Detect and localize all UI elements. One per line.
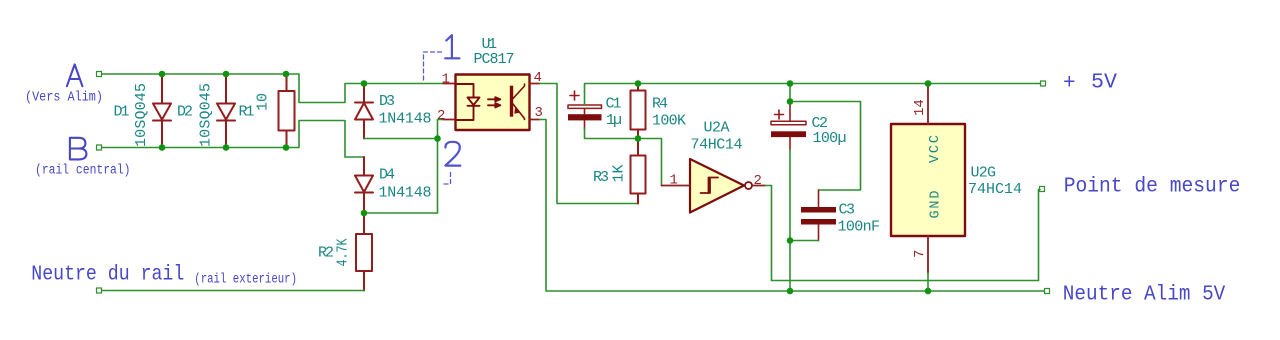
wire C3 bottom link (790, 240, 819, 242)
svg-text:100K: 100K (652, 113, 686, 130)
svg-text:D4: D4 (379, 167, 395, 184)
capacitor C3 (801, 190, 836, 241)
svg-text:1N4148: 1N4148 (379, 185, 432, 202)
diode D4 (355, 157, 373, 213)
junction D3 top (361, 80, 368, 87)
U1 pin 2 (444, 119, 456, 121)
svg-text:C1: C1 (606, 96, 622, 113)
wire pin2 stub (438, 119, 444, 121)
svg-text:1K: 1K (611, 165, 628, 183)
svg-text:(Vers Alim): (Vers Alim) (25, 91, 103, 106)
svg-text:R1: R1 (239, 104, 255, 121)
junction R4 top (635, 80, 642, 87)
wire pin2 vertical down to D4 node (364, 120, 438, 214)
U2A pin 1 (662, 185, 691, 187)
svg-text:14: 14 (912, 99, 928, 116)
junction A-D1 (159, 71, 166, 78)
U2A output bubble (745, 182, 752, 189)
U1 light arrows (488, 97, 500, 107)
junction pin2 node (434, 135, 441, 142)
hierarchical label 1 dashed leader (424, 52, 443, 80)
svg-text:4.7K: 4.7K (335, 239, 352, 267)
svg-text:U2A: U2A (704, 120, 730, 137)
U2G pin 14 (927, 85, 929, 124)
hierarchical label 1 (445, 35, 459, 58)
junction A-D2 (223, 71, 230, 78)
U2A hysteresis symbol (701, 178, 719, 194)
Point de mesure pad (1040, 187, 1045, 192)
resistor R3 (631, 139, 646, 204)
wire A rail (102, 73, 286, 75)
inverter U2A body (690, 159, 744, 213)
junction RC node (635, 135, 642, 142)
resistor R2 (356, 213, 372, 291)
junction U2G pin14 (925, 80, 932, 87)
diode D1 (153, 74, 171, 148)
node A text label (67, 64, 83, 86)
wire D3 anode to pin2 node (364, 138, 438, 140)
svg-text:1: 1 (670, 173, 678, 189)
svg-text:U2G: U2G (971, 164, 997, 181)
junction C2 ground (787, 288, 794, 295)
wire C1 top to +5V rail (585, 84, 1041, 106)
svg-text:PC817: PC817 (474, 51, 515, 68)
diode D2 (217, 74, 235, 148)
wire C2 top branch (790, 84, 861, 191)
wire B jog to D4 (286, 121, 364, 158)
junction B-D1 (159, 144, 166, 151)
svg-text:R4: R4 (652, 96, 668, 113)
U1 pin 3 (530, 119, 540, 121)
node B text label (70, 138, 87, 160)
svg-text:R3: R3 (593, 169, 609, 186)
hierarchical label 2 dashed leader (443, 173, 451, 185)
resistor R1 (279, 74, 295, 148)
svg-text:D2: D2 (177, 104, 193, 121)
power unit U2G body (891, 124, 965, 236)
U1 pin 4 (530, 83, 540, 85)
U1 pin 1 (444, 83, 456, 85)
diode D3 (355, 84, 373, 139)
svg-text:3: 3 (535, 105, 543, 121)
node B pad (97, 145, 102, 150)
wire Neutre du rail to R2 (102, 290, 364, 292)
svg-text:74HC14: 74HC14 (968, 181, 1022, 198)
Neutre Alim 5V pad (1045, 289, 1050, 294)
wire U2A output to Point de mesure (765, 186, 1040, 281)
wire U1 pin4 to R3 bottom (540, 84, 639, 204)
wire U2G pin7 to ground (927, 273, 929, 291)
+5V pad (1041, 81, 1046, 86)
junction +5V C2 (787, 80, 794, 87)
junction B-R1 (283, 144, 290, 151)
svg-text:5V: 5V (1091, 72, 1117, 95)
wire C1 bottom to RC junction (585, 128, 639, 139)
U2A pin 2 (752, 185, 765, 187)
svg-text:Neutre du rail: Neutre du rail (31, 264, 184, 287)
Neutre du rail pad (97, 288, 102, 293)
svg-text:D3: D3 (379, 93, 395, 110)
U1 internal LED (456, 84, 480, 120)
svg-text:VCC: VCC (928, 135, 943, 163)
svg-text:74HC14: 74HC14 (691, 136, 743, 153)
svg-text:(rail central): (rail central) (35, 164, 131, 179)
junction D4 bottom (361, 210, 368, 217)
svg-text:10SQ045: 10SQ045 (198, 83, 215, 147)
svg-text:(rail exterieur): (rail exterieur) (194, 273, 297, 288)
node A pad (97, 72, 102, 77)
svg-text:10SQ045: 10SQ045 (133, 83, 150, 147)
svg-text:R2: R2 (318, 245, 334, 262)
svg-text:GND: GND (929, 191, 944, 219)
capacitor C1 (568, 91, 602, 129)
wire U1 pin3 to ground rail (540, 120, 1045, 292)
svg-text:7: 7 (912, 250, 928, 258)
capacitor C2 (771, 102, 806, 151)
hierarchical label 2 (445, 142, 460, 166)
junction C3 bottom node (787, 237, 794, 244)
U2G pin 7 (927, 236, 929, 273)
junction B-D2 (223, 144, 230, 151)
svg-text:Point de mesure: Point de mesure (1064, 176, 1241, 199)
svg-text:Neutre Alim 5V: Neutre Alim 5V (1063, 284, 1226, 307)
svg-text:1: 1 (442, 72, 450, 88)
resistor R4 (631, 84, 646, 139)
svg-text:100µ: 100µ (813, 130, 847, 147)
svg-text:100nF: 100nF (838, 219, 881, 236)
wire RC node to U2A input (638, 139, 662, 186)
svg-text:1N4148: 1N4148 (379, 111, 432, 128)
wire B rail (102, 147, 286, 149)
svg-text:1µ: 1µ (606, 112, 622, 129)
wire A jog to U1 pin 1 (286, 74, 444, 103)
junction C2 top node (787, 98, 794, 105)
svg-text:10: 10 (255, 93, 272, 111)
svg-text:C3: C3 (839, 202, 856, 219)
svg-text:2: 2 (437, 108, 445, 124)
wire C2 bottom to ground (789, 150, 791, 291)
svg-text:D1: D1 (114, 104, 130, 121)
svg-text:2: 2 (754, 173, 762, 189)
junction A-R1 (283, 71, 290, 78)
junction U2G pin7 ground (925, 288, 932, 295)
optocoupler U1 body (456, 75, 530, 131)
svg-text:+: + (1063, 73, 1076, 96)
U1 phototransistor (510, 84, 525, 120)
